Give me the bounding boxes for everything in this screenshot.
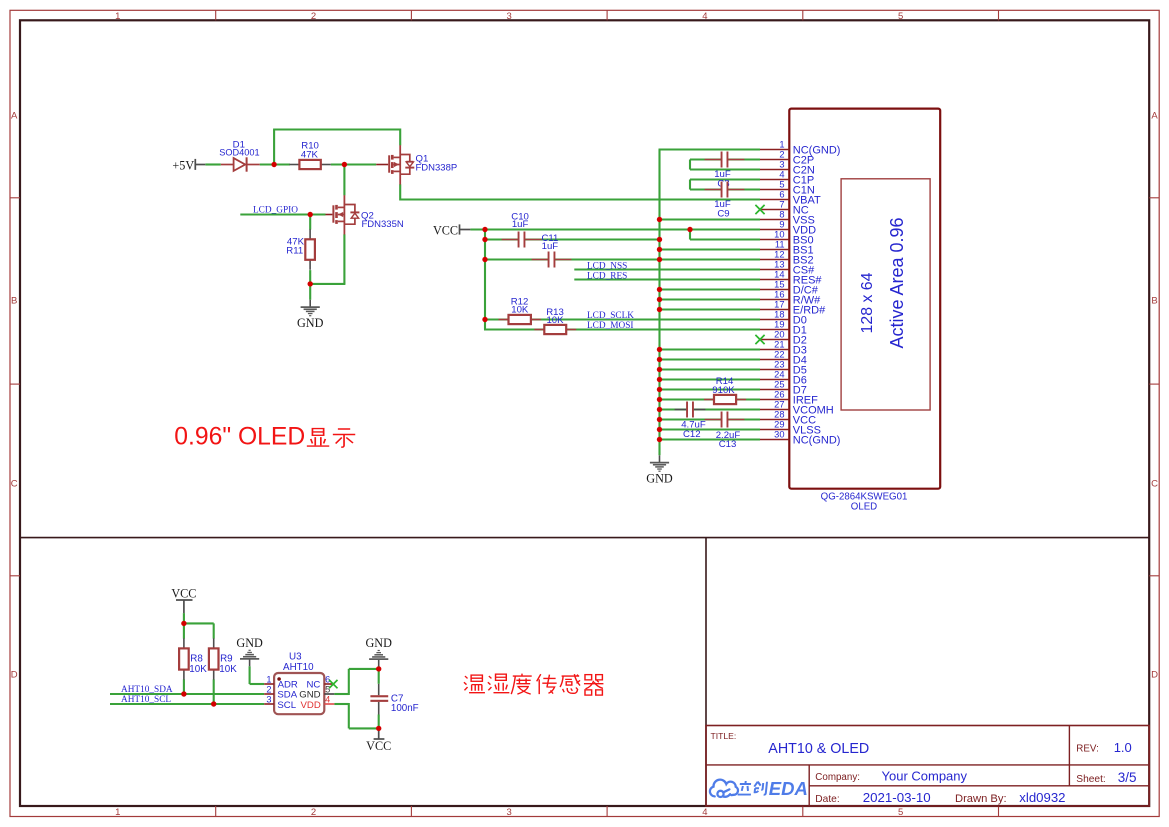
svg-text:VCC: VCC bbox=[171, 586, 196, 600]
svg-text:B: B bbox=[1151, 296, 1157, 307]
wire VBAT row to pin 6 bbox=[400, 198, 760, 200]
pin 29 VLSS bbox=[760, 420, 821, 437]
logo LCEDA cloud bbox=[710, 780, 738, 797]
capacitor C8 1uF bbox=[705, 152, 745, 190]
svg-text:9: 9 bbox=[779, 220, 784, 230]
pin 4 C1P bbox=[760, 170, 814, 187]
svg-text:5: 5 bbox=[779, 180, 784, 190]
pin 1 NC(GND) bbox=[760, 140, 840, 157]
svg-text:NC(GND): NC(GND) bbox=[793, 434, 841, 446]
wire AHT10_SDA row bbox=[110, 693, 264, 695]
svg-text:4: 4 bbox=[702, 11, 707, 22]
wire R11 bottom bbox=[309, 270, 311, 285]
svg-text:A: A bbox=[1151, 111, 1158, 122]
wire Q1 drain stem bbox=[399, 184, 401, 200]
caption temperature humidity sensor (red) bbox=[464, 674, 603, 695]
svg-text:1: 1 bbox=[266, 674, 271, 684]
wire row 2 C2P bbox=[690, 158, 760, 160]
no-connect X pin 20 bbox=[755, 335, 764, 344]
svg-text:1: 1 bbox=[779, 140, 784, 150]
svg-text:17: 17 bbox=[774, 300, 784, 310]
svg-text:30: 30 bbox=[774, 430, 784, 440]
pin 20 D2 bbox=[760, 330, 807, 347]
wire row 5 C1N bbox=[690, 188, 760, 190]
resistor R14 910K bbox=[704, 376, 746, 404]
junction LCD_GPIO R11 bbox=[308, 212, 313, 217]
svg-text:1: 1 bbox=[115, 11, 120, 22]
svg-text:LCD_MOSI: LCD_MOSI bbox=[587, 321, 634, 331]
diode D1 SOD4001 bbox=[219, 140, 259, 172]
junction trunk row27 bbox=[657, 407, 662, 412]
svg-text:4: 4 bbox=[779, 170, 784, 180]
wire R11 node to GND bbox=[309, 284, 311, 300]
svg-text:10K: 10K bbox=[511, 305, 529, 316]
svg-text:1uF: 1uF bbox=[512, 219, 529, 230]
svg-text:AHT10_SDA: AHT10_SDA bbox=[121, 685, 173, 695]
wire row 21 to GND trunk bbox=[660, 348, 761, 350]
wire row 27 VCOMH via C12 bbox=[660, 408, 761, 410]
port VCC above R8 bbox=[171, 586, 196, 613]
pin 27 VCOMH bbox=[760, 400, 834, 417]
svg-text:3: 3 bbox=[779, 160, 784, 170]
margin column ticks bottom bbox=[216, 806, 999, 817]
svg-text:A: A bbox=[11, 111, 18, 122]
svg-text:AHT10_SCL: AHT10_SCL bbox=[121, 695, 171, 705]
wire row 11 BS1 bbox=[660, 248, 761, 250]
wire row 12 BS2 to pin bbox=[660, 258, 761, 260]
pin 19 D1 bbox=[760, 320, 807, 337]
pin 24 D6 bbox=[760, 370, 807, 387]
svg-text:6: 6 bbox=[779, 190, 784, 200]
wire U3 VDD pin to loop bbox=[334, 703, 349, 705]
no-connect X pin 7 bbox=[755, 205, 764, 214]
junction VDD-BS0 jog bbox=[687, 227, 692, 232]
svg-text:19: 19 bbox=[774, 320, 784, 330]
capacitor C13 2.2uF bbox=[705, 412, 745, 451]
no-connect X at U3 pin 6 bbox=[329, 680, 337, 688]
junction trunk row23 bbox=[657, 367, 662, 372]
wire VCC loop vertical down bbox=[348, 703, 350, 728]
wire VDD to BS0 jog vertical bbox=[689, 230, 691, 240]
svg-text:24: 24 bbox=[774, 370, 784, 380]
svg-text:R11: R11 bbox=[286, 246, 303, 257]
svg-text:5: 5 bbox=[898, 807, 903, 818]
wire R8 R9 top link bbox=[184, 622, 214, 624]
resistor R12 10K bbox=[499, 297, 541, 325]
pin 12 BS2 bbox=[760, 250, 814, 267]
svg-text:GND: GND bbox=[365, 636, 392, 650]
wire row 8 VSS bbox=[660, 218, 761, 220]
wire LCD_GPIO to Q2 gate bbox=[240, 213, 325, 215]
wire C7 top bbox=[378, 666, 380, 684]
svg-text:128 x 64: 128 x 64 bbox=[859, 272, 876, 333]
resistor R9 10K bbox=[209, 638, 237, 679]
title block line under title row bbox=[706, 764, 1149, 766]
svg-text:+5V: +5V bbox=[172, 158, 194, 172]
pin 16 R/W# bbox=[760, 290, 821, 307]
pin 23 D5 bbox=[760, 360, 807, 377]
junction trunk row15 bbox=[657, 287, 662, 292]
svg-text:6: 6 bbox=[325, 674, 330, 684]
svg-text:7: 7 bbox=[779, 200, 784, 210]
wire R9 bottom bbox=[213, 679, 215, 705]
svg-text:910K: 910K bbox=[712, 385, 735, 396]
svg-text:LCD_RES: LCD_RES bbox=[587, 271, 627, 281]
pin 30 NC(GND) bbox=[760, 430, 840, 447]
junction R8-SDA bbox=[181, 691, 186, 696]
wire C7 bottom bbox=[378, 715, 380, 729]
junction C10-GND trunk bbox=[657, 237, 662, 242]
junction trunk row26 bbox=[657, 397, 662, 402]
junction GND-C7 top bbox=[376, 666, 381, 671]
wire R8 top bbox=[183, 623, 185, 638]
port +5V bbox=[172, 158, 205, 172]
junction C7-VCC bottom bbox=[376, 726, 381, 731]
capacitor C11 1uF bbox=[532, 233, 572, 268]
svg-text:14: 14 bbox=[774, 270, 784, 280]
svg-text:23: 23 bbox=[774, 360, 784, 370]
wire BS0 jog to pin 10 bbox=[690, 238, 760, 240]
wire D1 to node A bbox=[260, 163, 290, 165]
svg-text:SCL: SCL bbox=[277, 700, 296, 711]
pin 21 D3 bbox=[760, 340, 807, 357]
svg-text:2: 2 bbox=[266, 684, 271, 694]
pin 9 VDD bbox=[760, 220, 816, 237]
wire GND loop horizontal bbox=[349, 668, 379, 670]
svg-text:FDN335N: FDN335N bbox=[362, 219, 404, 230]
svg-text:LCD_NSS: LCD_NSS bbox=[587, 261, 627, 271]
wire row 17 to GND trunk bbox=[660, 308, 761, 310]
IC U3 AHT10 bbox=[264, 652, 334, 715]
svg-text:4: 4 bbox=[702, 807, 707, 818]
wire Q2 source down bbox=[343, 234, 345, 284]
wire LCD_RES row 14 bbox=[574, 278, 760, 280]
margin column numbers bottom bbox=[115, 807, 903, 818]
wire row 30 NC(GND) bbox=[660, 438, 761, 440]
svg-text:GND: GND bbox=[297, 316, 324, 330]
pin 10 BS0 bbox=[760, 230, 814, 247]
wire row 1 NC(GND) bbox=[659, 148, 761, 150]
wire R8 bottom bbox=[183, 679, 185, 695]
svg-text:VCC: VCC bbox=[433, 223, 458, 237]
svg-text:REV:: REV: bbox=[1076, 744, 1099, 755]
wire row 4 C1P bbox=[690, 178, 760, 180]
svg-text:3: 3 bbox=[507, 807, 512, 818]
wire R12 row 18 LCD_SCLK bbox=[485, 318, 760, 320]
junction trunk row11 bbox=[657, 247, 662, 252]
ground GND below OLED trunk bbox=[659, 455, 661, 462]
ground GND above C7 bbox=[378, 659, 380, 666]
svg-text:3/5: 3/5 bbox=[1118, 770, 1137, 785]
svg-text:10K: 10K bbox=[189, 664, 207, 675]
svg-text:8: 8 bbox=[779, 210, 784, 220]
margin row ticks right bbox=[1149, 198, 1159, 576]
wire row 24 to GND trunk bbox=[660, 378, 761, 380]
wire C8 loop vertical bbox=[689, 160, 691, 170]
wire R10 to Q1 gate node bbox=[331, 163, 376, 165]
pin 6 VBAT bbox=[760, 190, 821, 207]
title block line under company row bbox=[809, 785, 1149, 787]
svg-text:0.96" OLED: 0.96" OLED bbox=[174, 424, 305, 451]
margin row letters right bbox=[1151, 111, 1158, 681]
wire row 15 to GND trunk bbox=[660, 288, 761, 290]
wire row 16 to GND trunk bbox=[660, 298, 761, 300]
svg-text:28: 28 bbox=[774, 410, 784, 420]
junction D1-R10 node bbox=[271, 162, 276, 167]
junction VCC R8-R9 bbox=[181, 621, 186, 626]
svg-text:100nF: 100nF bbox=[391, 703, 419, 714]
svg-text:29: 29 bbox=[774, 420, 784, 430]
wire row 28 VCC via C13 bbox=[660, 418, 761, 420]
wire +5V to D1 bbox=[205, 163, 221, 165]
svg-text:FDN338P: FDN338P bbox=[416, 163, 458, 174]
junction trunk row8 bbox=[657, 217, 662, 222]
OLED active area rectangle bbox=[841, 179, 930, 410]
svg-text:27: 27 bbox=[774, 400, 784, 410]
svg-text:47K: 47K bbox=[301, 150, 319, 161]
svg-text:xld0932: xld0932 bbox=[1019, 790, 1065, 805]
svg-text:EDA: EDA bbox=[769, 778, 808, 799]
svg-text:GND: GND bbox=[236, 636, 263, 650]
wire R13 row 19 LCD_MOSI bbox=[484, 328, 760, 330]
pin 2 C2P bbox=[760, 150, 814, 167]
wire VCC loop horizontal bbox=[349, 727, 379, 729]
wire VCC trunk vertical bbox=[484, 230, 486, 330]
svg-text:12: 12 bbox=[774, 250, 784, 260]
capacitor C9 1uF bbox=[705, 182, 745, 220]
title block logo cell divider bbox=[808, 765, 810, 806]
pin 17 E/RD# bbox=[760, 300, 826, 317]
junction VCC-C11 bbox=[482, 257, 487, 262]
svg-text:10: 10 bbox=[774, 230, 784, 240]
transistor Q1 FDN338P bbox=[376, 145, 457, 184]
pin 5 C1N bbox=[760, 180, 815, 197]
wire AHT10_SCL row bbox=[110, 703, 264, 705]
svg-text:D: D bbox=[11, 670, 18, 681]
wire Q2 source to R11 bottom node bbox=[309, 283, 345, 285]
junction trunk row22 bbox=[657, 357, 662, 362]
svg-text:1uF: 1uF bbox=[542, 241, 559, 252]
pin 3 C2N bbox=[760, 160, 815, 177]
margin column numbers top bbox=[115, 11, 903, 22]
junction trunk row16 bbox=[657, 297, 662, 302]
title block rev cell divider bbox=[1068, 726, 1070, 786]
wire GND to U3 ADR horizontal bbox=[250, 683, 265, 685]
capacitor C7 100nF bbox=[370, 684, 418, 715]
svg-text:2: 2 bbox=[311, 11, 316, 22]
svg-text:Active Area 0.96: Active Area 0.96 bbox=[887, 217, 907, 348]
junction Q1 gate node bbox=[342, 162, 347, 167]
junction VCC-R12 bbox=[482, 317, 487, 322]
junction trunk row30 bbox=[657, 437, 662, 442]
svg-text:18: 18 bbox=[774, 310, 784, 320]
pin 22 D4 bbox=[760, 350, 807, 367]
svg-text:13: 13 bbox=[774, 260, 784, 270]
caption 0.96 inch OLED display (red) bbox=[174, 424, 355, 451]
connector U2 QG-2864KSWEG01 OLED body bbox=[789, 109, 940, 489]
wire C10 row 10 bbox=[485, 238, 660, 240]
resistor R13 10K bbox=[534, 307, 576, 334]
svg-text:1: 1 bbox=[115, 807, 120, 818]
wire row 3 C2N bbox=[690, 168, 760, 170]
logo text 立创EDA bbox=[738, 781, 767, 795]
capacitor C10 1uF bbox=[502, 211, 542, 247]
capacitor C12 4.7uF bbox=[675, 402, 706, 440]
junction VCC trunk row9 bbox=[482, 227, 487, 232]
margin row ticks left bbox=[10, 198, 20, 576]
svg-text:26: 26 bbox=[774, 390, 784, 400]
svg-text:10K: 10K bbox=[219, 664, 237, 675]
svg-text:25: 25 bbox=[774, 380, 784, 390]
pin 11 BS1 bbox=[760, 240, 814, 257]
junction trunk row29 bbox=[657, 427, 662, 432]
junction trunk row21 bbox=[657, 347, 662, 352]
pin 28 VCC bbox=[760, 410, 816, 427]
svg-text:LCD_GPIO: LCD_GPIO bbox=[253, 206, 298, 216]
port VCC mid bbox=[433, 223, 470, 237]
svg-text:B: B bbox=[11, 296, 17, 307]
pin 26 IREF bbox=[760, 390, 818, 407]
svg-text:U3: U3 bbox=[289, 652, 302, 663]
title block border bbox=[706, 726, 1149, 807]
resistor R10 47K bbox=[289, 141, 330, 169]
wire VCC port down bbox=[183, 613, 185, 624]
pin 14 RES# bbox=[760, 270, 822, 287]
wire row 26 IREF via R14 bbox=[660, 398, 761, 400]
section divider horizontal bbox=[20, 537, 1149, 539]
svg-text:Date:: Date: bbox=[815, 794, 839, 805]
pin 13 CS# bbox=[760, 260, 815, 277]
junction trunk row28 bbox=[657, 417, 662, 422]
wire GND to U3 ADR vertical bbox=[249, 666, 251, 684]
svg-text:Your Company: Your Company bbox=[882, 768, 968, 783]
pin 15 D/C# bbox=[760, 280, 819, 297]
wire U3 GND pin to loop bbox=[334, 693, 349, 695]
svg-text:1.0: 1.0 bbox=[1114, 740, 1132, 755]
junction trunk row25 bbox=[657, 387, 662, 392]
resistor R11 47K bbox=[286, 229, 315, 269]
svg-text:C13: C13 bbox=[719, 439, 737, 450]
svg-text:SOD4001: SOD4001 bbox=[219, 147, 259, 157]
wire row 23 to GND trunk bbox=[660, 368, 761, 370]
junction VCC-C10 bbox=[482, 237, 487, 242]
wire LCD_NSS row 13 bbox=[574, 268, 760, 270]
svg-text:22: 22 bbox=[774, 350, 784, 360]
svg-text:5: 5 bbox=[898, 11, 903, 22]
svg-text:Company:: Company: bbox=[815, 772, 860, 783]
pin 25 D7 bbox=[760, 380, 807, 397]
pin 18 D0 bbox=[760, 310, 807, 327]
junction trunk row24 bbox=[657, 377, 662, 382]
svg-text:AHT10 & OLED: AHT10 & OLED bbox=[768, 741, 869, 757]
svg-text:Drawn By:: Drawn By: bbox=[955, 793, 1007, 805]
junction R11-Q2 source bbox=[308, 281, 313, 286]
resistor R8 10K bbox=[179, 638, 207, 679]
svg-text:2: 2 bbox=[311, 807, 316, 818]
wire VCC row 9 / VDD bbox=[470, 228, 760, 230]
junction trunk row17 bbox=[657, 307, 662, 312]
wire R9 top bbox=[213, 623, 215, 638]
svg-text:Sheet:: Sheet: bbox=[1076, 774, 1105, 785]
wire node A up bbox=[273, 130, 275, 165]
svg-text:4: 4 bbox=[325, 694, 330, 704]
svg-text:LCD_SCLK: LCD_SCLK bbox=[587, 311, 634, 321]
junction R9-SCL bbox=[211, 701, 216, 706]
svg-text:AHT10: AHT10 bbox=[283, 662, 314, 673]
section divider vertical bbox=[705, 538, 707, 806]
pin 7 NC bbox=[760, 200, 809, 217]
svg-text:2021-03-10: 2021-03-10 bbox=[863, 790, 931, 805]
svg-text:5: 5 bbox=[325, 684, 330, 694]
svg-text:10K: 10K bbox=[546, 315, 564, 326]
wire R11 top bbox=[309, 215, 311, 230]
svg-text:D: D bbox=[1151, 670, 1158, 681]
wire GND trunk vertical bbox=[658, 150, 660, 456]
wire GND loop vertical up bbox=[348, 669, 350, 695]
pin 8 VSS bbox=[760, 210, 815, 227]
svg-text:3: 3 bbox=[266, 694, 271, 704]
svg-text:TITLE:: TITLE: bbox=[711, 731, 737, 741]
svg-text:VDD: VDD bbox=[301, 700, 321, 711]
ground GND at U3 ADR bbox=[249, 659, 251, 666]
svg-text:11: 11 bbox=[775, 240, 785, 250]
svg-text:OLED: OLED bbox=[851, 502, 877, 513]
svg-text:16: 16 bbox=[774, 290, 784, 300]
wire row 25 to GND trunk bbox=[660, 388, 761, 390]
margin column ticks top bbox=[216, 10, 999, 20]
wire row 29 VLSS bbox=[660, 428, 761, 430]
wire C9 loop vertical bbox=[689, 180, 691, 190]
svg-text:2: 2 bbox=[779, 150, 784, 160]
wire C11 row 12 bbox=[485, 258, 660, 260]
svg-text:3: 3 bbox=[507, 11, 512, 22]
svg-text:GND: GND bbox=[646, 472, 673, 486]
wire row 22 to GND trunk bbox=[660, 358, 761, 360]
wire top horizontal to Q1 source bbox=[273, 128, 400, 130]
svg-text:21: 21 bbox=[774, 340, 784, 350]
svg-text:C: C bbox=[11, 479, 18, 490]
svg-text:C: C bbox=[1151, 479, 1158, 490]
ground GND below R11 bbox=[309, 300, 311, 307]
svg-text:C12: C12 bbox=[683, 429, 701, 440]
svg-text:20: 20 bbox=[774, 330, 784, 340]
wire Q1 source stem bbox=[399, 129, 401, 146]
wire Q2 drain up to gate node bbox=[343, 164, 345, 196]
svg-text:VCC: VCC bbox=[366, 739, 391, 753]
margin row letters left bbox=[11, 111, 18, 681]
transistor Q2 FDN335N bbox=[326, 195, 404, 234]
port VCC below C7 bbox=[366, 728, 391, 752]
svg-text:C9: C9 bbox=[717, 209, 729, 220]
junction trunk row12 bbox=[657, 257, 662, 262]
svg-text:15: 15 bbox=[774, 280, 784, 290]
